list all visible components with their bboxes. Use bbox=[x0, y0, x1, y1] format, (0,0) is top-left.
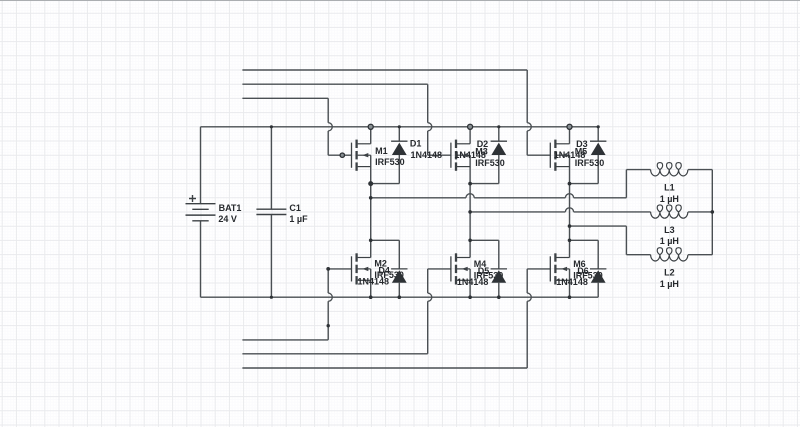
svg-text:M1: M1 bbox=[375, 146, 388, 156]
svg-text:L2: L2 bbox=[664, 268, 675, 278]
svg-text:1 µH: 1 µH bbox=[660, 194, 679, 204]
svg-text:1N4148: 1N4148 bbox=[457, 277, 489, 287]
svg-text:BAT1: BAT1 bbox=[219, 203, 242, 213]
svg-text:L1: L1 bbox=[664, 183, 675, 193]
svg-text:1 µF: 1 µF bbox=[289, 214, 308, 224]
svg-text:24 V: 24 V bbox=[218, 214, 237, 224]
svg-text:1N4148: 1N4148 bbox=[411, 150, 443, 160]
svg-text:D2: D2 bbox=[477, 139, 489, 149]
svg-text:1 µH: 1 µH bbox=[660, 236, 679, 246]
svg-text:C1: C1 bbox=[289, 203, 301, 213]
svg-text:D3: D3 bbox=[576, 139, 588, 149]
svg-text:1 µH: 1 µH bbox=[660, 279, 679, 289]
svg-text:D1: D1 bbox=[410, 138, 422, 148]
svg-text:IRF530: IRF530 bbox=[375, 157, 405, 167]
svg-text:1N4148: 1N4148 bbox=[556, 277, 588, 287]
svg-text:L3: L3 bbox=[664, 225, 675, 235]
svg-text:1N4148: 1N4148 bbox=[454, 150, 486, 160]
svg-text:1N4148: 1N4148 bbox=[554, 150, 586, 160]
svg-text:1N4148: 1N4148 bbox=[358, 276, 390, 286]
